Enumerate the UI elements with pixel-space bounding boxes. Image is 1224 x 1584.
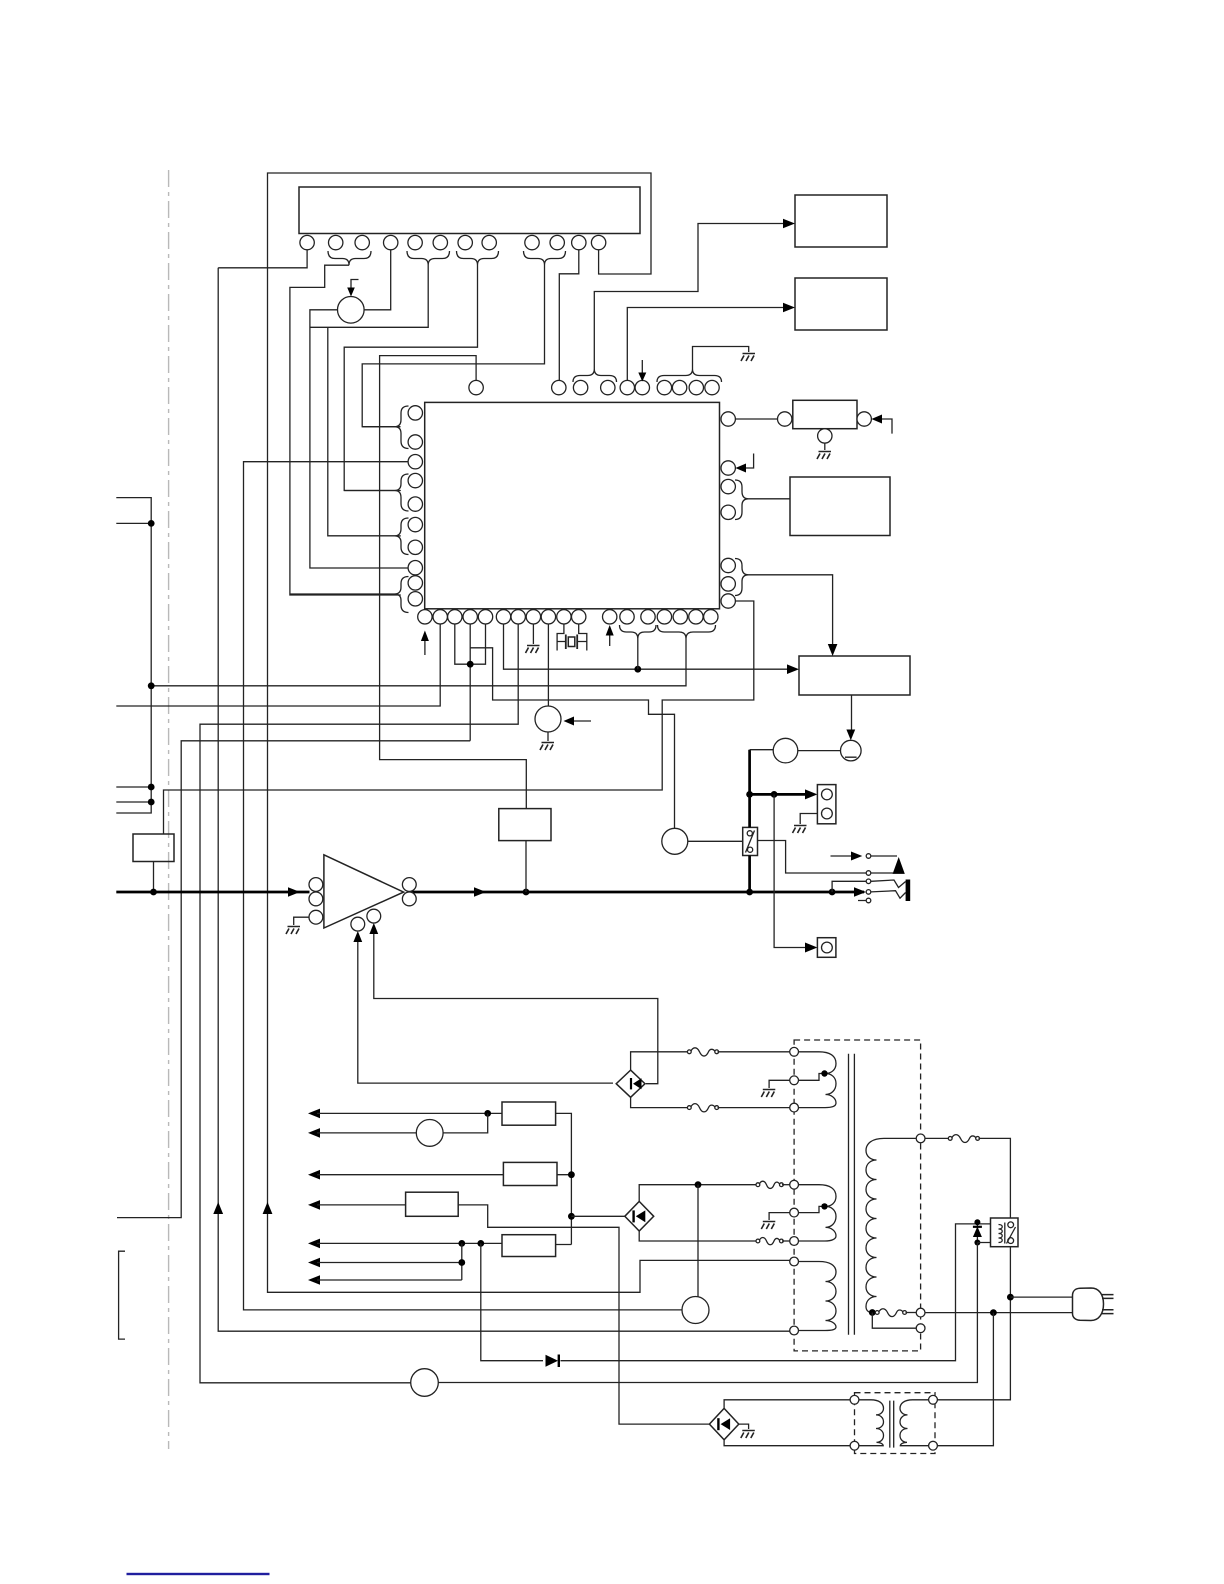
secondary lower stub — [872, 1313, 916, 1329]
wire: secondary top to fuse F6 to relay switch — [925, 1137, 949, 1139]
transistor Q1 (circle) — [338, 297, 365, 324]
T1 secondary bottom tap to fuse F5 — [869, 1309, 876, 1316]
T1 secondary terminals — [916, 1134, 925, 1143]
wire: TB4 down to transistor Q1 right — [364, 250, 391, 310]
brace C under TB7,TB8 — [457, 251, 499, 265]
switch S1 box — [743, 827, 758, 855]
output row arrows (left-pointing) — [308, 1109, 320, 1285]
T1 primary terminals — [790, 1047, 799, 1056]
wire: p13/p14 brace to p6 line junction — [637, 639, 639, 670]
brace R5/R6 — [735, 559, 749, 596]
filter X2 pins and body (right of R0) — [778, 412, 792, 426]
arrow stub into Q3 right — [570, 720, 591, 722]
wire: p6 to B4 arrow line — [504, 624, 791, 669]
wire: D3 bottom to T2 primary bottom — [724, 1440, 850, 1446]
fuse F5 — [879, 1309, 904, 1317]
wire: L3 to bus4 — [244, 462, 682, 1310]
transistor Q4 — [773, 738, 798, 763]
connector J1 (2 contacts) — [817, 785, 836, 824]
relay RY1 box — [991, 1218, 1019, 1247]
wire: braceD staircase to L1/L2 — [362, 265, 544, 427]
R-amp box bottom to signal line — [525, 841, 527, 892]
wire: braceB down, bus to L6/L7 — [310, 265, 428, 536]
row6 row7 tie — [317, 1243, 462, 1280]
main signal line (bold) — [116, 891, 309, 894]
brace under p15-p18 — [658, 625, 716, 639]
block B2 — [795, 278, 887, 330]
relay protection diode D5 — [976, 1222, 978, 1242]
J1 ground hook — [800, 814, 817, 825]
relay contact — [1008, 1222, 1014, 1228]
IC bottom pins p1-p18 — [418, 610, 718, 624]
row4 wire to bridge D2 feed — [317, 1205, 709, 1424]
resistor box row1 — [502, 1102, 556, 1125]
block B1 (top right) — [795, 195, 887, 247]
wire: p8 ground — [532, 624, 534, 644]
hook from signal line dot to 4th contact — [832, 881, 866, 892]
wire: TB1 down-left to bus3 — [218, 250, 307, 268]
wire: R5/R6 brace to block B4 top — [749, 575, 833, 647]
motor M1 (box with circle) — [817, 938, 836, 958]
brace B under TB5,TB6 — [407, 251, 450, 265]
wire: TB11 to IC top pin T2 — [559, 250, 579, 381]
ground (chassis) at T7-T10 — [741, 354, 755, 362]
Q3 ground — [547, 732, 549, 741]
block B5 (left small box on chassis line) — [133, 834, 174, 862]
IC right pins R0,R2-R7 — [721, 412, 735, 608]
jack vertical (bold) from circle to signal line — [748, 750, 751, 892]
headphone plug wedge — [893, 857, 905, 874]
resistor box row4 — [406, 1192, 459, 1216]
wire: S1 right to headphone contact — [758, 841, 867, 874]
connector bracket [ at left edge — [119, 1251, 125, 1339]
wire: p7 to bus2 — [200, 624, 518, 1383]
wire: p4 branch to transistor Q2 top path — [470, 648, 674, 829]
fuse F4 — [759, 1237, 780, 1244]
left edge stubs to vertical x151 — [116, 498, 151, 813]
tap ground top — [769, 1080, 790, 1088]
IC left pins L1-L10 — [408, 406, 422, 606]
wire: T5 to block B2 — [627, 308, 786, 381]
IC U2 (top block body) — [299, 187, 640, 234]
wire: B5 box bottom to signal line — [153, 862, 155, 893]
wire: secondary to plug bottom — [925, 1312, 1073, 1314]
block B3 — [790, 477, 890, 536]
junction dot p4 — [467, 661, 474, 668]
wire: Q-circle pair at top — [750, 749, 774, 751]
T1 secondary winding (big coil) — [866, 1138, 916, 1312]
arrowhead into B1 — [783, 219, 795, 229]
wire: J1 dot down to motor M1 — [774, 794, 808, 947]
IC top pins T1-T10 — [469, 380, 719, 394]
T2 terminals — [850, 1395, 859, 1404]
arrow stub into p1 — [424, 637, 426, 655]
T2 secondary winding — [900, 1400, 929, 1446]
wire: braceC staircase to L4/L5 — [344, 265, 477, 491]
A1 input pins — [309, 878, 323, 892]
wire: B4 bottom to Q5 arrow — [851, 695, 853, 734]
brace over T7-T10 — [657, 369, 722, 382]
A1 bottom pins — [351, 917, 365, 931]
relay coil — [999, 1225, 1003, 1243]
brace over T3,T4 — [573, 369, 617, 382]
bridge rectifier D3 — [709, 1408, 738, 1439]
wire: D3 top to T2 primary top — [724, 1400, 850, 1409]
small transformer T2 dashed box — [855, 1393, 936, 1454]
bridge rectifier D2 — [625, 1201, 654, 1231]
arrow up on bus5 — [263, 1202, 273, 1214]
brace R3/R4 — [735, 480, 749, 520]
row3 wire — [317, 1174, 571, 1176]
wire: p9 to transistor Q3 — [547, 624, 549, 706]
wire: relay switch lower to small transformer T2 — [937, 1247, 1010, 1400]
wire: T3/T4 brace to block B1 — [594, 224, 786, 370]
wire: D2 bottom to fuse F4 and terminal — [639, 1231, 757, 1241]
arrow up on bus3 — [213, 1202, 223, 1214]
wire: TB12 outer loop down far left (bus5) — [268, 173, 790, 1292]
wire: diode bottom via bus2 circle line — [439, 1243, 991, 1383]
A1 ground hook — [294, 917, 309, 925]
op-amp A1 triangle — [324, 855, 404, 928]
arrow stub into p12 — [609, 631, 611, 646]
junction dot on p6 line — [634, 666, 641, 673]
fuse F2 — [691, 1104, 716, 1112]
wire: D2 junction down to transistor Q6 — [697, 1185, 699, 1297]
feedback wire 1: A1 bottom to bridge D1 left — [358, 938, 613, 1083]
row2 wire with lamp PL1 — [317, 1113, 488, 1133]
brace L4/L5 — [395, 474, 409, 511]
feedback wire 2: A1 bottom to bridge D1 right — [374, 930, 658, 1084]
bold tie line and dot to connector J1 — [750, 793, 812, 796]
junction dot and wire to plug top — [1007, 1294, 1014, 1301]
row5 wire — [317, 1243, 571, 1244]
T1 primary winding mid (2 loops) — [799, 1185, 837, 1241]
fuse F1 — [691, 1048, 716, 1056]
row1 wire to box and right riser — [317, 1113, 571, 1244]
brace A under TB2,TB3 — [328, 251, 371, 265]
T1 primary winding bottom (3 loops) — [799, 1262, 837, 1331]
brace L1/L2 — [395, 406, 409, 449]
transistor Q3 below IC — [535, 706, 561, 732]
transistor Q2 (above jack area) — [662, 828, 688, 854]
wire: Q2 right to switch S1 — [688, 840, 743, 842]
wire: D1 top to fuse F1 to transformer primary — [631, 1052, 688, 1070]
wire: p15-18 brace to long 686-line to left junction — [151, 639, 686, 686]
wire: D2 top to fuse F3 and terminal — [639, 1185, 757, 1202]
transistor Q6 — [682, 1297, 709, 1324]
footer rule (blue) — [127, 1573, 270, 1575]
crystal X1 between p10,p11 — [557, 624, 587, 651]
arrow hook into Q1 top — [351, 280, 359, 290]
IC U1 (main large IC body) — [425, 402, 720, 608]
T1 core — [849, 1054, 855, 1335]
wire: p2 to left edge — [116, 624, 440, 706]
tap ground mid — [769, 1213, 790, 1220]
T1 mid winding tap — [799, 1206, 826, 1212]
wire: R0 to X2 — [735, 418, 777, 420]
wire: Q1 left to L8/braceB bus — [310, 310, 408, 568]
X2 bottom pin ground — [824, 443, 826, 450]
brace D under TB9,TB10 — [524, 251, 566, 265]
chassis dash-dot line — [168, 170, 170, 1449]
T1 primary winding top (2 loops) — [799, 1052, 837, 1108]
brace under p13,p14 — [620, 625, 657, 639]
wire: T1 up-left down to R-amp box — [380, 356, 527, 809]
wire: plug-line dot down to T2 secondary bottom — [937, 1313, 993, 1446]
fuse F6 — [952, 1135, 977, 1143]
D3 right vertex ground — [739, 1424, 749, 1429]
junction dots on x151 — [148, 520, 155, 527]
wire: bus3 (TB1) to transformer primary bottom terminal — [218, 268, 790, 1331]
jack body bar and springs — [906, 880, 911, 902]
transistor Q7 on bus2 line — [411, 1369, 439, 1397]
resistor box R-amp (above amplifier) — [499, 809, 551, 841]
wire: T7-T10 brace to ground — [693, 347, 749, 370]
arrow stub into T6 — [641, 360, 643, 376]
A1 output pins — [402, 878, 416, 892]
wire: p3,p4,p5 tied, down bus1 to relay path — [117, 624, 486, 1218]
hook arrow into R2 — [741, 454, 754, 469]
wire: riser dot to bridge D2 left — [571, 1215, 624, 1217]
wire: L8 lead — [290, 427, 395, 594]
arrowhead into B2 — [783, 303, 795, 313]
resistor box row5 — [502, 1235, 556, 1257]
junction dots on signal line — [523, 889, 530, 896]
transistor Q5 (with bar) — [841, 740, 862, 761]
top block pins TB1-TB12 — [300, 235, 606, 249]
diode D4 — [546, 1355, 559, 1367]
headphone jack J2 contacts — [831, 855, 854, 857]
power transformer T1 dashed box — [794, 1040, 921, 1351]
wire: R3/R4 brace to block B3 — [749, 498, 791, 500]
brace L6/L7 — [395, 518, 409, 555]
AC plug P1 — [1073, 1288, 1104, 1321]
wire: braceA staircase to bus x289.9 — [290, 265, 401, 595]
resistor box row3 — [503, 1162, 557, 1185]
T1 top winding tap — [799, 1074, 826, 1081]
fuse F3 — [759, 1181, 780, 1188]
wire: row5 drop to diode D4 line to relay — [481, 1224, 991, 1361]
T2 primary winding — [859, 1400, 884, 1446]
T2 core — [890, 1401, 894, 1448]
wire: R7 long path to box B5 top — [164, 601, 754, 834]
block B4 — [799, 656, 910, 695]
hook arrow into X2 right pin — [877, 419, 892, 434]
wire: D1 bottom to fuse F2 to transformer primary — [631, 1097, 688, 1107]
brace L9/L10 — [395, 577, 409, 613]
bridge rectifier D1 — [616, 1070, 645, 1097]
